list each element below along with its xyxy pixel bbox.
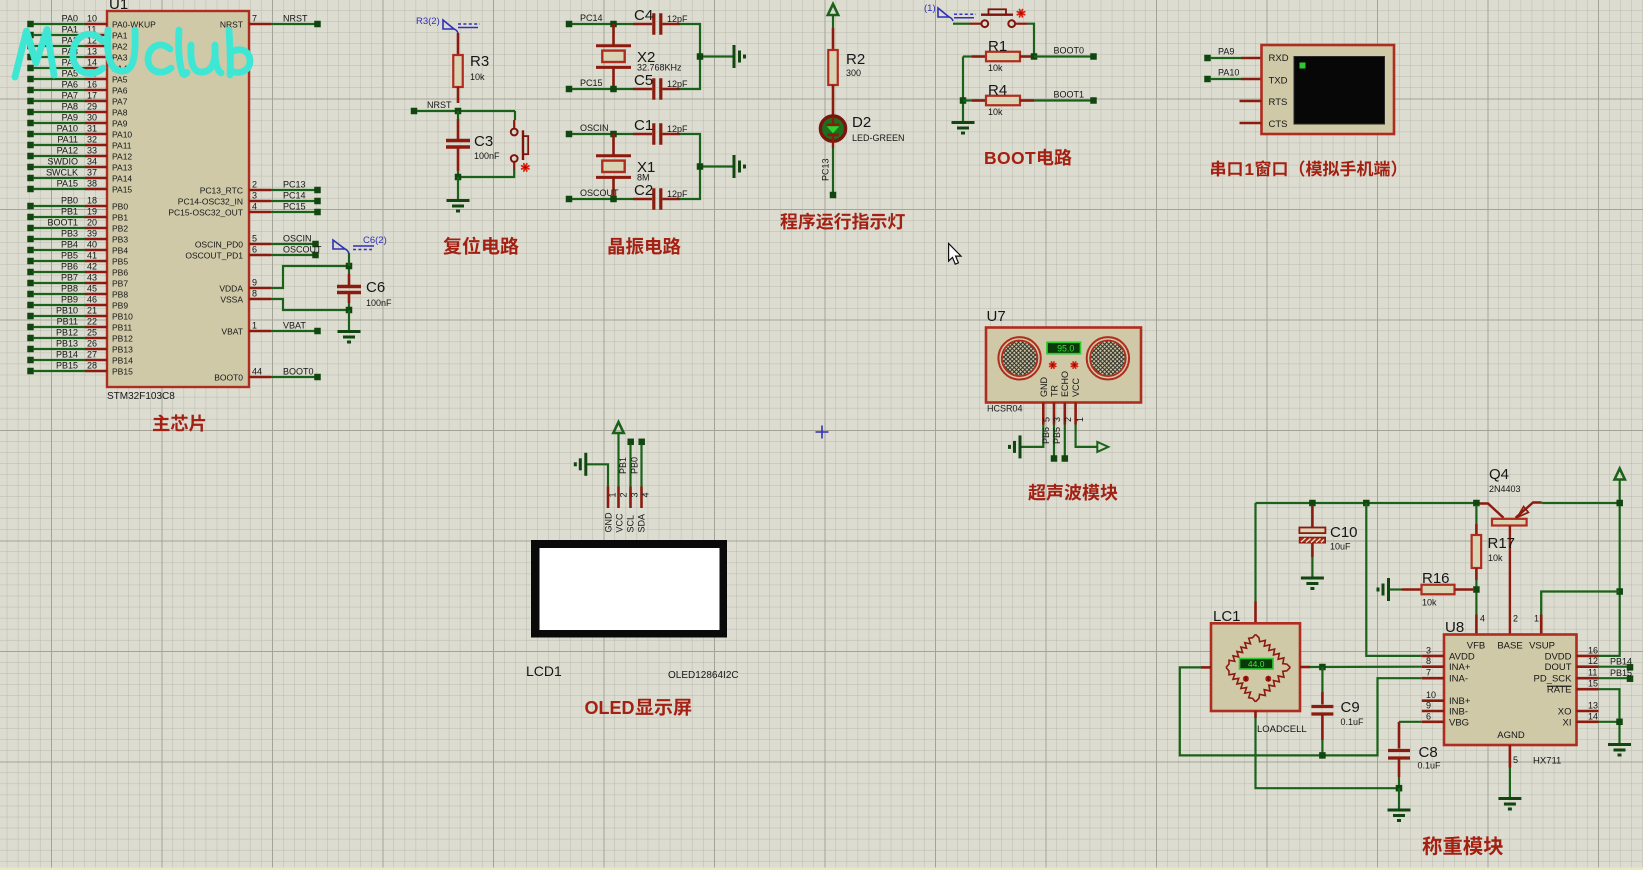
svg-text:42: 42 bbox=[87, 262, 97, 272]
section label 晶振电路 bbox=[609, 237, 681, 255]
svg-text:CTS: CTS bbox=[1269, 119, 1288, 130]
LC1 weight display 44.0 bbox=[1240, 659, 1274, 670]
section label BOOT电路 bbox=[984, 148, 1072, 168]
ground below U8 AGND bbox=[1498, 799, 1521, 810]
svg-text:PB0: PB0 bbox=[630, 457, 640, 474]
resistor R3 10k bbox=[453, 33, 489, 103]
svg-text:11: 11 bbox=[1588, 668, 1597, 678]
ground below C6 bbox=[338, 332, 361, 343]
svg-text:BOOT0: BOOT0 bbox=[1054, 46, 1085, 56]
origin marker bbox=[816, 426, 829, 439]
LC1 indicator dot left bbox=[1243, 676, 1249, 682]
svg-text:PA1: PA1 bbox=[112, 31, 128, 41]
svg-text:OSCIN: OSCIN bbox=[580, 123, 609, 133]
U1 left pin PA2 (pin 12) wire and terminal bbox=[27, 36, 127, 52]
svg-text:10k: 10k bbox=[988, 63, 1003, 73]
svg-text:SWCLK: SWCLK bbox=[46, 168, 78, 178]
ultrasonic module U7 HCSR04 body bbox=[986, 328, 1141, 403]
svg-text:100nF: 100nF bbox=[474, 151, 500, 161]
svg-text:PB6: PB6 bbox=[61, 262, 78, 272]
svg-text:5: 5 bbox=[1513, 755, 1518, 765]
svg-text:100nF: 100nF bbox=[366, 298, 392, 308]
svg-text:(1): (1) bbox=[924, 3, 936, 14]
junction at VDDA/C6 node bbox=[346, 263, 353, 270]
svg-text:31: 31 bbox=[87, 124, 97, 134]
svg-text:PC14-OSC32_IN: PC14-OSC32_IN bbox=[178, 197, 243, 207]
svg-text:39: 39 bbox=[87, 229, 97, 239]
junction right rail at VSUP row bbox=[1616, 588, 1623, 595]
svg-text:5: 5 bbox=[252, 234, 257, 244]
U1 left pin PB4 (pin 40) wire and terminal bbox=[27, 240, 128, 256]
svg-text:PB0: PB0 bbox=[61, 196, 78, 206]
U8 right pin RATE (pin 15) bbox=[1547, 679, 1599, 696]
U7 right transducer bbox=[1087, 337, 1129, 379]
svg-text:OSCOUT_PD1: OSCOUT_PD1 bbox=[185, 251, 243, 261]
svg-text:PA15: PA15 bbox=[112, 185, 132, 195]
U1 left pin PA0-WKUP (pin 10) wire and terminal bbox=[27, 14, 156, 30]
capacitor C5 12pF bbox=[633, 72, 688, 100]
wire bus to ground stub bbox=[700, 165, 733, 167]
junction C9 top bbox=[1319, 664, 1326, 671]
capacitor C3 100nF bbox=[446, 111, 500, 177]
svg-text:PB9: PB9 bbox=[112, 301, 128, 311]
net label PA10 terminal and wire bbox=[1204, 68, 1261, 83]
U1 right pin PC15-OSC32_OUT (pin 4) wire and terminal bbox=[168, 202, 320, 218]
svg-text:PC14: PC14 bbox=[283, 191, 306, 201]
U8 right pin XO (pin 13) bbox=[1558, 701, 1599, 718]
power symbol top right bbox=[1615, 469, 1625, 480]
svg-text:12pF: 12pF bbox=[667, 189, 688, 199]
svg-text:PA9: PA9 bbox=[62, 113, 78, 123]
net label OSCIN terminal bbox=[566, 123, 609, 137]
svg-text:40: 40 bbox=[87, 240, 97, 250]
ground below BOOT divider bbox=[952, 123, 975, 134]
svg-text:PA2: PA2 bbox=[112, 42, 128, 52]
LC1 bridge resistors bbox=[1226, 634, 1290, 701]
U7 pin name ECHO bbox=[1060, 371, 1070, 397]
wire right power rail bbox=[1599, 480, 1620, 656]
U7 value label HCSR04 bbox=[987, 404, 1023, 414]
wire U7 ECHO to PB5 terminal bbox=[1064, 425, 1066, 456]
power symbol right of U7 bbox=[1097, 442, 1108, 452]
svg-text:BASE: BASE bbox=[1497, 641, 1522, 652]
net label PB14 terminal bbox=[1610, 657, 1633, 671]
svg-text:21: 21 bbox=[87, 306, 97, 316]
svg-text:5: 5 bbox=[1042, 417, 1052, 422]
svg-text:12pF: 12pF bbox=[667, 14, 688, 24]
wire PD_SCK to PB15 terminal bbox=[1599, 677, 1628, 679]
svg-text:INB-: INB- bbox=[1449, 707, 1468, 718]
svg-text:PA8: PA8 bbox=[112, 108, 128, 118]
U1 left pin PB7 (pin 43) wire and terminal bbox=[27, 273, 128, 289]
U1 value label STM32F103C8 bbox=[107, 391, 175, 402]
svg-text:4: 4 bbox=[640, 492, 650, 497]
U1 right pin VDDA (pin 9) wire bbox=[219, 266, 349, 294]
svg-text:2: 2 bbox=[618, 492, 628, 497]
svg-text:OSCOUT: OSCOUT bbox=[283, 245, 322, 255]
wire top power rail bbox=[1256, 502, 1477, 504]
junction button/R1/BOOT0 bbox=[1031, 53, 1038, 60]
svg-text:C9: C9 bbox=[1341, 699, 1360, 716]
wire NRST node bbox=[417, 110, 515, 112]
U1 left pin PB6 (pin 42) wire and terminal bbox=[27, 262, 128, 278]
svg-text:PA15: PA15 bbox=[57, 179, 78, 189]
svg-text:1: 1 bbox=[1075, 417, 1085, 422]
U1 left pin PA15 (pin 38) wire and terminal bbox=[27, 179, 132, 195]
U7 pin name TR bbox=[1049, 385, 1059, 397]
load cell LC1 body bbox=[1211, 623, 1300, 711]
svg-text:32.768KHz: 32.768KHz bbox=[637, 63, 682, 73]
svg-text:13: 13 bbox=[1588, 701, 1598, 711]
junction PC14/crystal bbox=[610, 21, 617, 28]
svg-text:SWDIO: SWDIO bbox=[48, 157, 79, 167]
LCD1 value label OLED12864I2C bbox=[668, 670, 739, 681]
svg-text:C8: C8 bbox=[1419, 744, 1438, 761]
svg-text:9: 9 bbox=[1426, 701, 1431, 711]
ground left of U7 bbox=[1010, 435, 1021, 458]
svg-text:4: 4 bbox=[252, 202, 257, 212]
svg-text:INA-: INA- bbox=[1449, 674, 1468, 685]
U1 left pin PA6 (pin 16) wire and terminal bbox=[27, 80, 127, 96]
svg-text:PA12: PA12 bbox=[57, 146, 78, 156]
svg-text:PB13: PB13 bbox=[112, 345, 133, 355]
svg-text:PA7: PA7 bbox=[62, 91, 78, 101]
svg-text:10: 10 bbox=[87, 14, 97, 24]
U1 right pin VBAT (pin 1) wire and terminal bbox=[221, 321, 320, 337]
MCUclub watermark bbox=[15, 30, 250, 78]
svg-text:PB4: PB4 bbox=[112, 246, 128, 256]
svg-text:PA10: PA10 bbox=[57, 124, 78, 134]
push button BOOT bbox=[953, 9, 1034, 56]
resistor R17 10k bbox=[1472, 505, 1515, 635]
terminal PB5 bbox=[1062, 455, 1069, 462]
svg-text:12pF: 12pF bbox=[667, 79, 688, 89]
svg-text:16: 16 bbox=[1588, 645, 1598, 655]
push button RESET bbox=[458, 111, 529, 177]
svg-text:20: 20 bbox=[87, 218, 97, 228]
svg-text:C3: C3 bbox=[474, 133, 493, 150]
ultrasonic module U7 reference label bbox=[987, 308, 1006, 325]
U7 indicator dot right bbox=[1071, 362, 1077, 368]
svg-text:RXD: RXD bbox=[1269, 53, 1289, 64]
svg-text:PA10: PA10 bbox=[112, 130, 132, 140]
svg-text:C2: C2 bbox=[634, 182, 653, 199]
svg-text:PA6: PA6 bbox=[112, 86, 128, 96]
power symbol above R2 bbox=[828, 4, 838, 28]
svg-text:PA5: PA5 bbox=[112, 75, 128, 85]
svg-text:PA9: PA9 bbox=[112, 119, 128, 129]
U8 right pin DOUT (pin 12) bbox=[1545, 656, 1599, 673]
svg-text:PB11: PB11 bbox=[112, 323, 132, 333]
svg-text:BOOT1: BOOT1 bbox=[1054, 90, 1085, 100]
svg-text:PA12: PA12 bbox=[112, 152, 132, 162]
svg-text:10k: 10k bbox=[1488, 553, 1503, 563]
U1 left pin PB10 (pin 21) wire and terminal bbox=[27, 306, 133, 322]
net label PC15 terminal bbox=[566, 78, 603, 92]
U8 left pin INB- (pin 9) bbox=[1422, 701, 1468, 718]
svg-text:OSCIN: OSCIN bbox=[283, 234, 312, 244]
svg-text:10k: 10k bbox=[1422, 598, 1437, 608]
svg-text:29: 29 bbox=[87, 102, 97, 112]
svg-text:PB10: PB10 bbox=[56, 306, 78, 316]
junction Q4 collector node bbox=[1473, 500, 1480, 507]
net label PC13 rotated bbox=[821, 158, 831, 181]
svg-text:INA+: INA+ bbox=[1449, 662, 1471, 673]
capacitor C1 12pF bbox=[633, 117, 688, 145]
svg-text:U1: U1 bbox=[109, 0, 128, 13]
svg-text:44.0: 44.0 bbox=[1248, 659, 1265, 669]
svg-text:C6(2): C6(2) bbox=[363, 235, 387, 246]
svg-text:GND: GND bbox=[1039, 377, 1049, 398]
wire U7 VCC to power bbox=[1076, 425, 1097, 447]
svg-text:PA1: PA1 bbox=[62, 25, 78, 35]
svg-text:41: 41 bbox=[87, 251, 97, 261]
net label PA9 terminal and wire bbox=[1204, 47, 1261, 62]
svg-text:3: 3 bbox=[629, 492, 639, 497]
svg-text:PB7: PB7 bbox=[112, 279, 128, 289]
svg-text:TXD: TXD bbox=[1269, 76, 1288, 87]
ground left of OLED bbox=[575, 453, 586, 476]
U1 left pin PA4 (pin 14) wire and terminal bbox=[27, 58, 127, 74]
svg-text:26: 26 bbox=[87, 339, 97, 349]
svg-text:PA3: PA3 bbox=[112, 53, 128, 63]
svg-text:PB11: PB11 bbox=[57, 317, 78, 327]
U1 left pin PB9 (pin 46) wire and terminal bbox=[27, 295, 128, 311]
svg-text:VBG: VBG bbox=[1449, 717, 1469, 728]
U1 left pin PA1 (pin 11) wire and terminal bbox=[27, 25, 127, 41]
U8 top pin labels bbox=[1467, 614, 1555, 652]
svg-text:PB9: PB9 bbox=[61, 295, 78, 305]
svg-text:PB14: PB14 bbox=[1610, 657, 1632, 667]
U8 left pin VBG (pin 6) bbox=[1422, 711, 1469, 728]
junction at VSSA/C6 node bbox=[346, 307, 353, 314]
net label PB1 rotated bbox=[618, 457, 628, 474]
U1 left pin PA3 (pin 13) wire and terminal bbox=[27, 47, 127, 63]
svg-text:30: 30 bbox=[87, 113, 97, 123]
svg-text:RTS: RTS bbox=[1269, 97, 1288, 108]
section label 复位电路 bbox=[444, 237, 519, 255]
section label 程序运行指示灯 bbox=[780, 213, 904, 230]
svg-text:NRST: NRST bbox=[427, 100, 452, 110]
svg-text:BOOT1: BOOT1 bbox=[47, 218, 78, 228]
crystal X1 8M bbox=[596, 134, 655, 199]
LCD1 OLED display body bbox=[531, 540, 727, 638]
svg-text:VSSA: VSSA bbox=[220, 295, 243, 305]
svg-text:15: 15 bbox=[1588, 679, 1598, 689]
svg-text:C1: C1 bbox=[634, 117, 653, 134]
wire PC15 row bbox=[572, 88, 633, 90]
svg-text:PB14: PB14 bbox=[56, 350, 78, 360]
svg-text:32: 32 bbox=[87, 135, 97, 145]
U1 left pin PB14 (pin 27) wire and terminal bbox=[27, 350, 133, 366]
svg-text:PB6: PB6 bbox=[112, 268, 128, 278]
U7 indicator dot left bbox=[1050, 362, 1056, 368]
svg-text:VCC: VCC bbox=[1071, 377, 1081, 397]
IC U8 reference label bbox=[1445, 619, 1464, 636]
wire C8 top to VBG bbox=[1399, 721, 1422, 723]
svg-text:PC13_RTC: PC13_RTC bbox=[200, 186, 243, 196]
svg-text:PB6: PB6 bbox=[1041, 427, 1051, 444]
wire to reset ground bbox=[457, 177, 459, 200]
svg-text:PB7: PB7 bbox=[61, 273, 78, 283]
svg-text:STM32F103C8: STM32F103C8 bbox=[107, 391, 175, 402]
svg-text:NRST: NRST bbox=[283, 14, 308, 24]
svg-text:7: 7 bbox=[252, 14, 257, 24]
wire C6 flag to node bbox=[348, 253, 350, 266]
svg-text:VBAT: VBAT bbox=[221, 327, 243, 337]
svg-text:PA14: PA14 bbox=[112, 174, 132, 184]
svg-text:27: 27 bbox=[87, 350, 97, 360]
junction PC15/crystal bbox=[610, 86, 617, 93]
svg-text:PB3: PB3 bbox=[61, 229, 78, 239]
svg-text:OLED: OLED bbox=[585, 698, 635, 718]
wire OLED SDA to PB0 bbox=[640, 445, 642, 488]
wire OLED GND to ground bbox=[587, 464, 608, 487]
svg-text:PD_SCK: PD_SCK bbox=[1533, 674, 1572, 685]
svg-text:PC14: PC14 bbox=[580, 13, 603, 23]
wire C1 to bus bbox=[680, 134, 700, 199]
U7 pin name VCC bbox=[1071, 377, 1081, 397]
svg-text:10k: 10k bbox=[988, 107, 1003, 117]
svg-text:PC13: PC13 bbox=[821, 158, 831, 181]
svg-text:PA13: PA13 bbox=[112, 163, 132, 173]
virtual terminal CTS pin stub bbox=[1240, 122, 1262, 125]
U8 value label HX711 bbox=[1533, 756, 1561, 767]
terminal BOOT0 bbox=[1054, 46, 1097, 60]
svg-text:10: 10 bbox=[1426, 690, 1436, 700]
net label NRST terminal bbox=[411, 100, 452, 114]
U1 left pin PA7 (pin 17) wire and terminal bbox=[27, 91, 127, 107]
U1 left pin PB13 (pin 26) wire and terminal bbox=[27, 339, 133, 355]
svg-text:C10: C10 bbox=[1330, 524, 1358, 541]
U7 distance display 95.0 bbox=[1047, 342, 1081, 353]
wire Q4 emitter to right rail bbox=[1542, 502, 1620, 504]
U7 pin name GND bbox=[1039, 377, 1049, 398]
svg-text:C4: C4 bbox=[634, 7, 653, 24]
svg-text:VCC: VCC bbox=[614, 513, 624, 533]
U7 pin 1 VCC stub bbox=[1075, 403, 1085, 425]
svg-text:44: 44 bbox=[252, 367, 262, 377]
svg-text:2: 2 bbox=[1513, 614, 1518, 624]
wire C6 to ground bbox=[348, 310, 350, 331]
svg-text:PA7: PA7 bbox=[112, 97, 128, 107]
svg-text:LOADCELL: LOADCELL bbox=[1257, 724, 1307, 735]
terminal BOOT1 bbox=[1054, 90, 1097, 104]
svg-text:U7: U7 bbox=[987, 308, 1006, 325]
LC1 indicator dot right bbox=[1265, 676, 1271, 682]
blue navigation flag C6(2) bbox=[333, 235, 387, 254]
capacitor C4 12pF bbox=[633, 7, 688, 35]
U1 left pin PB8 (pin 45) wire and terminal bbox=[27, 284, 128, 300]
svg-text:R17: R17 bbox=[1488, 535, 1516, 552]
svg-text:XO: XO bbox=[1558, 707, 1572, 718]
U8 left pin INA- (pin 7) bbox=[1422, 668, 1468, 685]
svg-text:PA11: PA11 bbox=[57, 135, 78, 145]
U8 right pin XI (pin 14) bbox=[1563, 711, 1599, 728]
svg-text:PB1: PB1 bbox=[112, 213, 128, 223]
svg-text:PB0: PB0 bbox=[112, 202, 128, 212]
svg-text:DOUT: DOUT bbox=[1545, 662, 1572, 673]
svg-text:37: 37 bbox=[87, 168, 97, 178]
svg-text:PB15: PB15 bbox=[56, 361, 78, 371]
svg-text:PC15-OSC32_OUT: PC15-OSC32_OUT bbox=[168, 208, 243, 218]
U1 reference label bbox=[109, 0, 128, 13]
svg-text:PA11: PA11 bbox=[112, 141, 132, 151]
svg-text:PB14: PB14 bbox=[112, 356, 133, 366]
U1 right pin PC13_RTC (pin 2) wire and terminal bbox=[200, 180, 321, 196]
U1 left pin PA9 (pin 30) wire and terminal bbox=[27, 113, 127, 129]
capacitor C10 10uF polarized bbox=[1299, 505, 1357, 577]
svg-text:ECHO: ECHO bbox=[1060, 371, 1070, 397]
svg-text:PA0: PA0 bbox=[62, 14, 78, 24]
svg-text:PB8: PB8 bbox=[112, 290, 128, 300]
ground right of X2 bbox=[734, 45, 745, 68]
capacitor C8 0.1uF bbox=[1388, 722, 1441, 788]
ground below C3 bbox=[447, 201, 470, 212]
svg-text:10uF: 10uF bbox=[1330, 542, 1351, 552]
wire U7 GND to ground bbox=[1021, 425, 1043, 447]
svg-text:R1: R1 bbox=[988, 38, 1007, 55]
svg-text:2N4403: 2N4403 bbox=[1489, 484, 1521, 494]
wire U7 TR to PB6 terminal bbox=[1053, 425, 1055, 456]
svg-text:PC13: PC13 bbox=[283, 180, 306, 190]
svg-text:PA9: PA9 bbox=[1218, 47, 1234, 57]
crystal X2 32.768KHz bbox=[596, 24, 682, 89]
junction right rail at emitter row bbox=[1616, 500, 1623, 507]
section label OLED显示屏 bbox=[585, 698, 692, 718]
svg-text:XI: XI bbox=[1563, 717, 1572, 728]
junction C9 bottom bbox=[1319, 752, 1326, 759]
junction R4 left bbox=[960, 97, 967, 104]
junction RATE/XI node bbox=[1616, 719, 1623, 726]
virtual terminal VT1 body bbox=[1262, 45, 1395, 134]
svg-text:PB1: PB1 bbox=[618, 457, 628, 474]
virtual terminal RTS pin stub bbox=[1240, 100, 1262, 103]
U1 left pin PB12 (pin 25) wire and terminal bbox=[27, 328, 133, 344]
U8 right pin PD_SCK (pin 11) bbox=[1533, 668, 1598, 685]
U1 left pin PA11 (pin 32) wire and terminal bbox=[27, 135, 132, 151]
terminal PC13 bbox=[830, 192, 837, 199]
wire BOOT1 net bbox=[1034, 99, 1091, 101]
svg-text:PA10: PA10 bbox=[1218, 68, 1239, 78]
svg-text:0.1uF: 0.1uF bbox=[1418, 761, 1442, 771]
svg-text:4: 4 bbox=[1480, 614, 1485, 624]
ground below RATE bbox=[1608, 745, 1631, 756]
LCD1 pin 2 VCC stub bbox=[614, 487, 628, 533]
wire OSCOUT row bbox=[572, 198, 633, 200]
svg-text:BOOT0: BOOT0 bbox=[283, 367, 314, 377]
LC1 value label LOADCELL bbox=[1257, 724, 1307, 735]
wire C4 to bus bbox=[680, 24, 700, 89]
svg-text:17: 17 bbox=[87, 91, 97, 101]
U1 left pin PB11 (pin 22) wire and terminal bbox=[27, 317, 132, 333]
LED D2 LED-GREEN bbox=[820, 114, 904, 148]
resistor R1 10k bbox=[963, 38, 1034, 73]
svg-text:Q4: Q4 bbox=[1489, 466, 1509, 483]
wire BOOT0 net bbox=[1034, 55, 1091, 57]
svg-text:43: 43 bbox=[87, 273, 97, 283]
svg-text:14: 14 bbox=[87, 58, 97, 68]
svg-text:19: 19 bbox=[87, 207, 97, 217]
svg-text:PB13: PB13 bbox=[56, 339, 78, 349]
svg-text:VDDA: VDDA bbox=[219, 284, 243, 294]
section label 超声波模块 bbox=[1028, 484, 1117, 501]
blue navigation flag R3(2) bbox=[416, 16, 480, 33]
svg-text:28: 28 bbox=[87, 361, 97, 371]
svg-text:R3(2): R3(2) bbox=[416, 16, 440, 27]
svg-text:R3: R3 bbox=[470, 53, 489, 70]
svg-text:8: 8 bbox=[1426, 656, 1431, 666]
